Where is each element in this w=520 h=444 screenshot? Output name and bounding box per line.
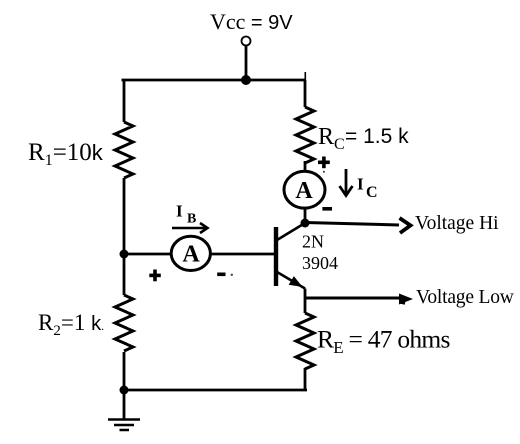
svg-text:I: I	[176, 202, 183, 221]
svg-text:A: A	[295, 178, 313, 204]
svg-text:3904: 3904	[302, 253, 338, 273]
svg-text:2N: 2N	[302, 232, 324, 252]
svg-text:Voltage Hi: Voltage Hi	[415, 213, 499, 234]
svg-text:Vcc = 9V: Vcc = 9V	[210, 9, 293, 34]
svg-text:Voltage Low: Voltage Low	[416, 287, 514, 308]
svg-text:C: C	[366, 184, 378, 201]
svg-text:I: I	[357, 175, 364, 194]
svg-text:R2=1 k.: R2=1 k.	[38, 310, 104, 339]
svg-text:= 1.5 k: = 1.5 k	[345, 125, 409, 148]
svg-text:A: A	[182, 242, 200, 268]
svg-text:R1=10k: R1=10k	[28, 139, 104, 169]
svg-text:B: B	[187, 212, 196, 227]
